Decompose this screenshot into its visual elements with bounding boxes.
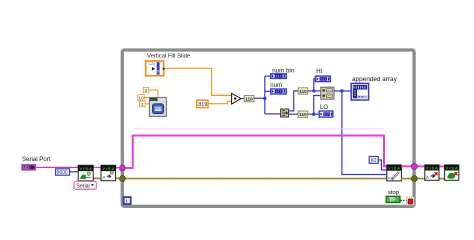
svg-text:Vertical Fill Slide: Vertical Fill Slide [147,53,191,59]
node VISA Configure Serial Port U2 [78,165,93,180]
conversion to U8 (lower) [298,111,308,117]
svg-text:Serial: Serial [76,183,89,189]
label LO [320,105,328,111]
indicator HI [315,76,330,82]
wire serial port to VISA configure (magenta) [36,166,120,168]
loop iteration terminal i [124,197,131,205]
svg-text:HI: HI [316,69,322,75]
node VISA Close U5 [425,165,439,181]
wire VISA to close (magenta) [401,165,444,167]
tunnel VISA left (magenta) [120,165,126,171]
wire multiply to conversion (blue) [241,98,244,100]
indicator num bin [271,74,287,79]
label Vertical Fill Slide [147,53,191,59]
tunnel error right (olive) [411,176,417,182]
constant 2 (bottom) [140,101,146,107]
svg-text:num: num [270,82,282,89]
svg-text:VISA: VISA [426,167,438,171]
label num [270,82,282,89]
function split number [281,109,289,117]
label stop [388,190,399,196]
wire slider to multiply (orange) [165,68,232,95]
svg-text:110: 110 [299,89,307,94]
enum constant Serial [74,181,96,189]
subVI icon (slider property) [149,97,166,116]
control Serial Port (VISA resource) [22,165,36,171]
wire stop to condition terminal (green dotted) [400,199,406,201]
wire error out of loop (olive dashed) [401,178,444,180]
constant 9600 [56,169,70,176]
wire 819 to multiply (orange) [209,101,232,103]
wire lo byte to LO indicator and build array (blue) [308,96,321,116]
tunnel error left (olive) [120,176,126,182]
svg-text:appended array: appended array [352,76,398,83]
svg-text:1.23: 1.23 [148,62,155,66]
svg-text:TF: TF [389,198,395,204]
wire error inside loop (olive dashed) [124,178,387,180]
constant 819 [197,100,208,108]
node VISA property U3 [101,165,116,181]
wire hi byte to HI indicator and build array (blue) [308,79,321,93]
svg-text:9600: 9600 [57,170,68,176]
conversion to U8 (upper) [298,88,308,94]
svg-text:VISA: VISA [446,167,458,171]
svg-text:10: 10 [139,96,144,101]
svg-text:LO: LO [320,105,328,111]
svg-text:Serial Port: Serial Port [22,156,51,163]
svg-text:PIC: PIC [150,98,156,102]
function multiply [232,93,241,104]
svg-text:I/O: I/O [23,165,29,170]
wire 9600 to VISA configure (blue) [70,171,78,173]
svg-text:110: 110 [245,97,253,102]
indicator LO [319,111,333,117]
tunnel VISA right (magenta) [411,163,417,169]
wires constants to subVI (orange) [144,90,158,104]
svg-text:110: 110 [299,112,307,117]
wire error between configure nodes (olive dashed) [93,177,120,179]
label Serial Port [22,156,51,163]
constant 2 (top) [143,87,148,93]
while loop border [122,50,414,206]
label appended array [352,76,398,83]
function build array [321,87,334,99]
wire conversion to junction / indicators / split (blue) [254,76,281,114]
wire 60 to VISA Write (blue) [378,160,387,170]
indicator num [271,89,287,94]
node error handler U6 [445,165,459,180]
svg-text:60: 60 [371,158,377,164]
svg-text:stop: stop [388,190,399,196]
constant 60 [369,157,378,165]
terminal Vertical Fill Slide (DBL control) [146,61,166,76]
svg-text:VISA: VISA [388,167,400,171]
wire split hi to conversion (blue) [289,91,299,111]
svg-text:819: 819 [198,102,207,108]
node VISA Write U4 [387,165,402,181]
wire split lo to conversion (blue) [289,113,299,115]
control stop (boolean TF) [386,196,400,203]
wire array down to VISA Write (blue) [342,91,387,175]
svg-text:VISA: VISA [79,167,92,171]
label HI [316,69,322,75]
constant 10 [138,95,144,101]
loop condition terminal [407,197,415,205]
wire build array to appended array indicator (blue) [334,89,351,92]
conversion to I16 [244,95,254,101]
wire VISA inside loop (magenta) [122,129,387,168]
label num bin [272,68,295,75]
indicator appended array [351,83,368,100]
svg-text:VISA: VISA [102,167,114,171]
